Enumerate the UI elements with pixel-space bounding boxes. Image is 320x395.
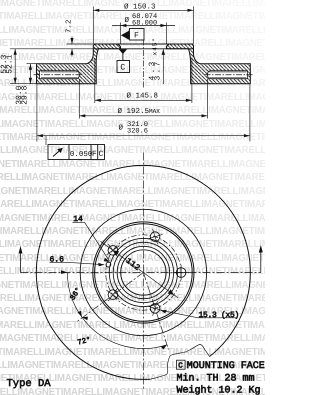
- arrows dia 192.5: [79, 114, 207, 117]
- arrows 30.0: [29, 64, 32, 84]
- svg-text:15.3 (x5): 15.3 (x5): [199, 311, 240, 320]
- arc arrow at 180deg: [61, 270, 67, 274]
- arrow 6.6: [98, 263, 104, 267]
- bolt circle dia 112 (dash-dot): [106, 235, 181, 310]
- svg-text:C: C: [120, 63, 125, 73]
- dimension line dia 150.3: [93, 9, 193, 11]
- arrows dia 68: [120, 24, 166, 27]
- locating hole dia 6.6: [106, 262, 111, 267]
- svg-text:F: F: [134, 32, 139, 41]
- svg-text:Ø 150.3: Ø 150.3: [124, 3, 156, 12]
- horizontal centerline / section plane: [21, 272, 261, 274]
- runout symbol: [53, 149, 62, 157]
- svg-text:29.8: 29.8: [20, 85, 29, 104]
- section right half: hatched material: [166, 44, 250, 84]
- bolt hole crosshairs: [173, 265, 189, 281]
- arc arrow at 288deg: [161, 345, 167, 350]
- vane lines in right slot: [209, 72, 246, 78]
- leader line for 14: [84, 222, 109, 261]
- datum C stem: [122, 53, 124, 61]
- svg-text:72°: 72°: [77, 336, 92, 348]
- svg-text:Ø: Ø: [125, 16, 130, 25]
- svg-text:Ø 145.8: Ø 145.8: [127, 92, 159, 101]
- extension lines dia 321: [37, 85, 250, 142]
- arrow dia112 lower: [168, 289, 174, 295]
- mounting plate surface lines across bore: [93, 44, 193, 49]
- arrow 14 leader: [104, 258, 110, 262]
- bolt hole 5 (288deg): [150, 304, 160, 314]
- svg-text:Ø: Ø: [119, 124, 124, 133]
- vane lines in left slot: [41, 72, 78, 78]
- C box in note: [177, 360, 186, 369]
- svg-text:112: 112: [124, 257, 142, 273]
- feature control frame leader: [45, 136, 47, 145]
- svg-text:68.000: 68.000: [132, 19, 157, 27]
- dimension line dia 68: [112, 25, 175, 27]
- front view arrowheads: [19, 245, 263, 350]
- svg-text:6.6: 6.6: [50, 255, 65, 264]
- section plane arrow left: [19, 246, 23, 254]
- svg-text:Min. TH 28 mm: Min. TH 28 mm: [177, 372, 255, 384]
- arrows 52.3: [14, 49, 17, 84]
- radial centerline 216deg: [78, 273, 144, 322]
- feature control frame box: [48, 145, 105, 160]
- dimension line dia 192.5: [79, 115, 207, 117]
- extension lines dia 145.8: [95, 58, 192, 103]
- section arrow stem left: [20, 250, 22, 273]
- circle dia 102 recess: [109, 238, 177, 306]
- section left half: hatched material: [37, 44, 121, 84]
- extension lines dia 192.5: [79, 79, 207, 119]
- svg-text:x45°: x45°: [152, 37, 159, 55]
- svg-text:C: C: [178, 362, 183, 371]
- bolt hole 2 (72deg): [150, 232, 160, 242]
- leader 14 underline: [72, 221, 84, 223]
- circle dia 192.5 friction inner: [80, 209, 206, 335]
- datum F triangle: [121, 31, 129, 40]
- svg-text:0.050: 0.050: [70, 150, 93, 159]
- chamfer leader arrow: [162, 49, 165, 55]
- svg-text:7.2: 7.2: [65, 19, 74, 33]
- extension lines 52.3 / 30.0: [10, 64, 36, 84]
- extension lines 7.2: [10, 44, 93, 49]
- circle dia 150.3 hat: [93, 222, 194, 323]
- svg-text:C: C: [99, 150, 104, 159]
- datum C triangle: [119, 49, 128, 54]
- section axis centerline: [142, 40, 144, 89]
- svg-text:3.7: 3.7: [153, 59, 162, 80]
- circle dia 92 spigot: [113, 242, 173, 302]
- dimension line dia 321: [37, 135, 250, 137]
- datum C box: [117, 61, 130, 73]
- section arrow stem right: [260, 250, 262, 273]
- extension lines dia 68 bore: [120, 23, 166, 44]
- vent slot centerline right: [205, 74, 254, 76]
- leader 6.6: [50, 262, 105, 264]
- vent slot right (white cutout): [208, 71, 248, 79]
- bore edge left with chamfer: [118, 44, 121, 49]
- datum F box: [130, 29, 145, 41]
- svg-text:36°: 36°: [68, 286, 83, 302]
- arrow dia112 upper (at bolt hole 3): [113, 250, 119, 256]
- datum F stem: [128, 31, 130, 39]
- outer circle dia 321 (broken at lower right): [36, 165, 250, 379]
- arrow 15.3: [161, 310, 167, 313]
- dia 112 dimension line through center: [101, 241, 179, 298]
- arrows 7.2 (outside): [70, 38, 73, 55]
- vent slot centerline left: [34, 74, 83, 76]
- svg-text:MOUNTING FACE: MOUNTING FACE: [187, 361, 265, 372]
- circle dia 68 bore: [121, 250, 166, 295]
- arrows dia 150.3: [93, 9, 193, 12]
- extension lines dia 150.3: [93, 7, 193, 44]
- svg-text:Ø 192.5MAX: Ø 192.5MAX: [118, 107, 161, 116]
- arrows dia 321: [37, 134, 250, 137]
- vertical centerline: [142, 153, 144, 391]
- radial centerline 288deg: [143, 273, 168, 350]
- dimension line 7.2: [71, 37, 73, 57]
- dimension line 30.0: [29, 64, 31, 84]
- bolt hole 1 (0deg): [176, 268, 186, 278]
- front view texts: [50, 215, 240, 347]
- bolt hole 4 (216deg): [108, 290, 118, 300]
- svg-text:Weight 10.2 Kg: Weight 10.2 Kg: [177, 385, 261, 395]
- svg-text:F: F: [92, 150, 97, 159]
- svg-text:14: 14: [73, 215, 83, 224]
- chamfer note leader line: [162, 49, 164, 84]
- leader 15.3 underline: [161, 310, 238, 318]
- bore edge right with chamfer: [166, 44, 169, 49]
- angle arc 36 and 72 deg: [67, 273, 167, 349]
- dimension line 52.3: [14, 49, 16, 84]
- vent slot left (white cutout): [40, 71, 80, 79]
- circle dia 78 chamfer: [117, 246, 169, 298]
- dimension line dia 145.8: [95, 99, 192, 101]
- bolt hole 3 (144deg): [108, 246, 118, 256]
- svg-text:320.6: 320.6: [127, 127, 148, 135]
- svg-text:Type DA: Type DA: [7, 378, 52, 390]
- arc arrows at 216deg: [78, 311, 88, 320]
- svg-text:52.1: 52.1: [6, 54, 15, 73]
- section plane arrow right: [259, 245, 263, 253]
- arrows dia 145.8: [95, 99, 192, 102]
- circle dia 145.8 hat: [95, 224, 193, 322]
- break line (partial view boundary): [150, 345, 209, 380]
